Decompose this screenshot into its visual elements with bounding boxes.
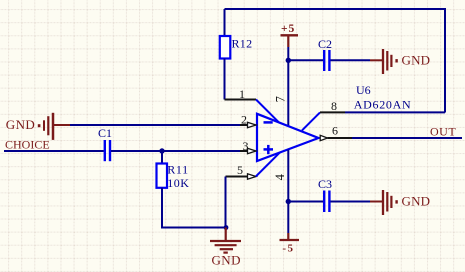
svg-text:7: 7 — [274, 96, 288, 102]
wire junction to C2 — [288, 59, 323, 61]
wire C2 to GND — [331, 59, 371, 61]
resistor R11 — [157, 151, 190, 190]
wire pin 4 junction to C3 — [288, 201, 323, 203]
wire R11 to ground — [162, 188, 226, 228]
svg-text:C2: C2 — [318, 37, 332, 51]
svg-text:GND: GND — [212, 253, 241, 268]
resistor R12 — [220, 9, 253, 100]
power -5 — [280, 233, 300, 255]
wire pin 8 to top loop — [345, 111, 445, 113]
pin 5 — [226, 152, 280, 179]
wire top loop from R12 to pin 8 — [225, 9, 446, 113]
pin 3 — [240, 139, 256, 154]
wire pin 6 to OUT — [352, 137, 462, 139]
svg-text:-5: -5 — [282, 243, 294, 255]
capacitor C2 — [318, 37, 332, 71]
junction node C1/R11/pin3 — [159, 148, 164, 153]
wire CHOICE to C1 — [4, 150, 104, 152]
svg-text:OUT: OUT — [430, 124, 456, 138]
pin 1 — [225, 87, 279, 122]
svg-text:1: 1 — [239, 87, 245, 101]
svg-text:4: 4 — [273, 173, 287, 180]
wire GND to pin 2 — [70, 124, 240, 126]
svg-text:6: 6 — [332, 124, 338, 138]
junction node R11/pin5/GND — [224, 225, 229, 230]
svg-text:CHOICE: CHOICE — [5, 138, 50, 152]
junction node pin4/C3/-5 — [286, 199, 291, 204]
pin 8 — [302, 99, 345, 130]
svg-text:R12: R12 — [232, 36, 253, 50]
svg-text:GND: GND — [402, 53, 431, 68]
wire C3 to GND — [331, 201, 371, 203]
pin 6 — [320, 124, 352, 141]
ground GND (top right) — [370, 49, 430, 74]
wire pin 5 down to ground junction — [225, 177, 227, 228]
svg-text:AD620AN: AD620AN — [354, 97, 412, 111]
svg-text:10K: 10K — [167, 176, 189, 190]
svg-text:2: 2 — [241, 113, 247, 127]
ground GND (bottom right) — [370, 190, 430, 215]
svg-text:3: 3 — [243, 139, 249, 153]
svg-text:C3: C3 — [318, 177, 332, 191]
capacitor C3 — [318, 177, 332, 212]
power +5 — [281, 23, 299, 47]
wire pin 4 down to -5 junction — [287, 150, 289, 234]
wire C1 to pin 3 — [111, 150, 240, 152]
svg-text:8: 8 — [331, 99, 337, 113]
svg-text:+5: +5 — [281, 23, 295, 35]
capacitor C1 — [98, 126, 112, 161]
svg-text:GND: GND — [6, 117, 35, 132]
svg-text:C1: C1 — [98, 126, 112, 140]
ground GND (bottom) — [210, 228, 241, 268]
svg-text:5: 5 — [237, 163, 243, 177]
svg-text:R11: R11 — [167, 162, 189, 176]
wire +5 to pin 7 and C2 — [287, 47, 289, 126]
junction node +5/C2/pin7 — [286, 58, 291, 63]
svg-text:GND: GND — [402, 194, 431, 209]
op-amp U6 AD620AN — [257, 83, 411, 161]
pin 2 — [240, 113, 256, 128]
ground GND (left, at pin 2) — [6, 113, 70, 140]
svg-text:U6: U6 — [356, 83, 371, 97]
